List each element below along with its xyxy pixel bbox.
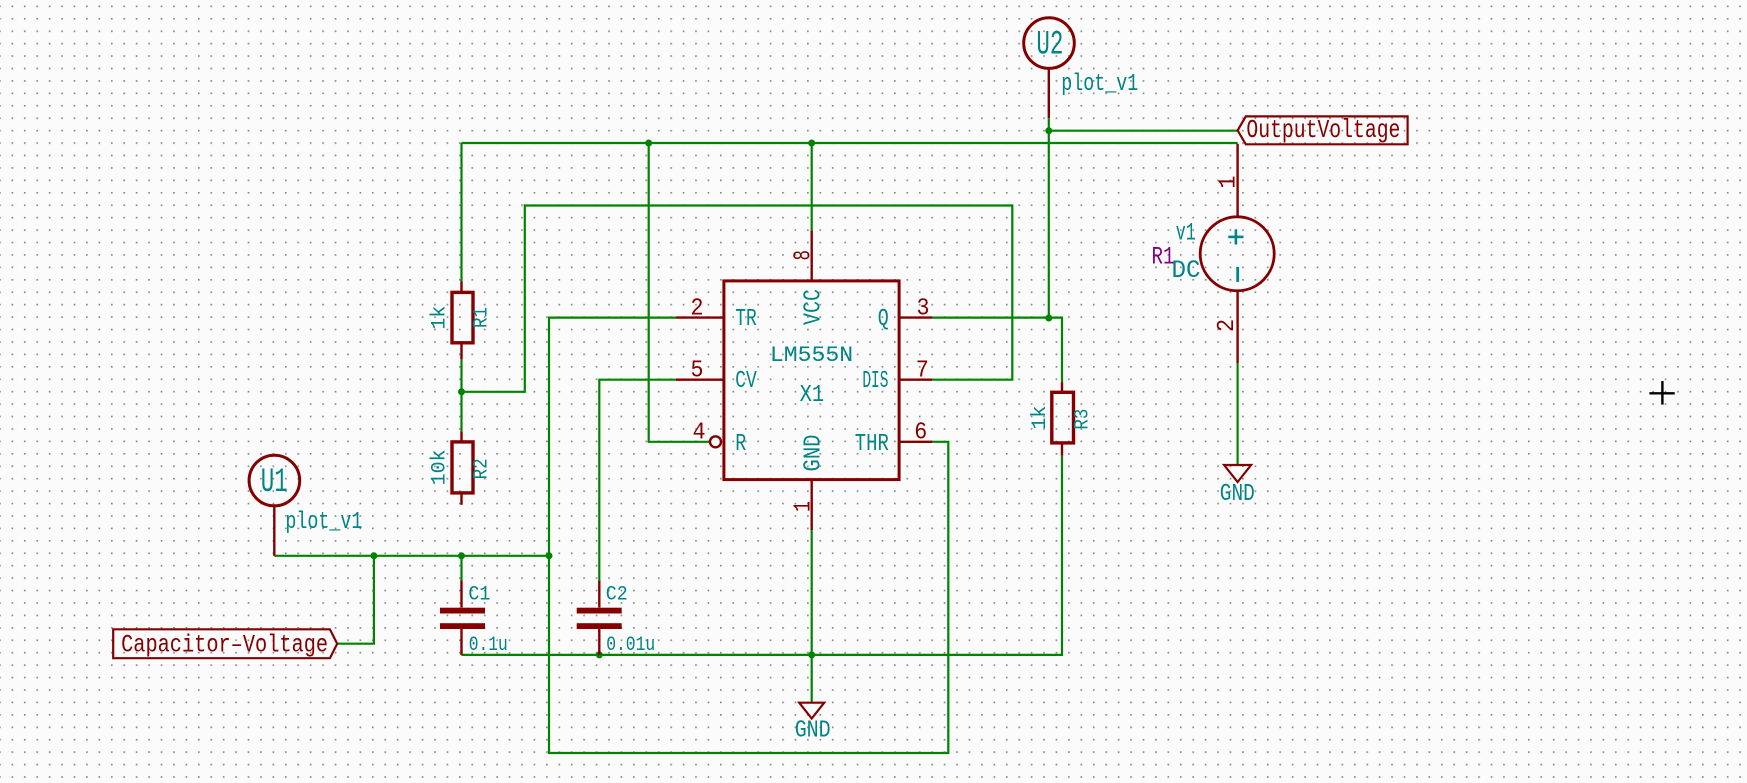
node junction C1 top [458, 552, 465, 559]
minus mark of v1 [1236, 267, 1239, 282]
ground symbol (under v1) [1220, 465, 1255, 508]
pin 7 DIS stub [899, 379, 932, 381]
svg-text:VCC: VCC [801, 289, 828, 325]
resistor R3 [1052, 382, 1074, 456]
capacitor C1 [440, 581, 485, 655]
svg-text:plot_v1: plot_v1 [1061, 71, 1138, 98]
svg-text:1: 1 [791, 501, 818, 512]
node junction IC GND ground rail [808, 651, 815, 658]
svg-text:C2: C2 [606, 584, 628, 607]
wire VCC top rail horizontal [462, 142, 1238, 144]
svg-text:X1: X1 [800, 382, 825, 409]
svg-text:Capacitor–Voltage: Capacitor–Voltage [121, 630, 328, 659]
node junction C2 bottom ground [596, 651, 603, 658]
wire reset pin 4 [649, 143, 710, 442]
svg-text:10k: 10k [429, 449, 452, 485]
resistor R2 [452, 431, 473, 505]
plus mark of v1 [1228, 229, 1243, 244]
op-amp U1 / timer IC X1 LM555N body [676, 230, 932, 530]
svg-text:U2: U2 [1036, 27, 1063, 65]
wire VCC pin 8 vertical [811, 143, 813, 230]
pin 4 R inverted bubble [710, 436, 721, 447]
svg-text:5: 5 [691, 357, 704, 384]
svg-text:2: 2 [691, 295, 704, 322]
svg-text:7: 7 [916, 357, 929, 384]
wire VCC rail to R1 vertical [460, 143, 462, 282]
svg-text:0.1u: 0.1u [469, 634, 508, 657]
wire Q output to R3 [932, 318, 1062, 383]
wire DIS loop [462, 206, 1013, 392]
voltage source v1 [1200, 144, 1274, 363]
wire v1 to ground [1236, 363, 1238, 465]
svg-text:R2: R2 [471, 458, 494, 479]
node junction capacitor label [370, 552, 377, 559]
svg-text:GND: GND [795, 718, 831, 745]
svg-text:TR: TR [735, 306, 757, 333]
pin 2 TR stub [676, 316, 724, 318]
svg-text:C1: C1 [468, 584, 490, 607]
pin 6 THR stub [899, 441, 932, 443]
svg-text:0.01u: 0.01u [606, 634, 655, 657]
node junction TR wire [546, 552, 553, 559]
svg-text:2: 2 [1214, 319, 1241, 332]
wire capacitor node horizontal [274, 555, 549, 557]
wire R1 to R2 [460, 359, 462, 431]
pin 1 GND stub [811, 480, 813, 530]
svg-text:Q: Q [878, 306, 889, 333]
svg-text:1: 1 [1216, 176, 1243, 189]
probe U1 [249, 455, 300, 556]
svg-text:R: R [735, 431, 746, 458]
svg-text:GND: GND [801, 435, 828, 472]
cursor crosshair [1649, 381, 1674, 405]
svg-text:CV: CV [735, 368, 757, 395]
node junction Q output [1045, 315, 1052, 322]
net label Capacitor-Voltage [113, 629, 337, 659]
probe U2 [1024, 18, 1075, 118]
wire U2 probe vertical [1048, 118, 1050, 318]
wire IC GND to ground [811, 530, 813, 703]
capacitor C2 [577, 580, 622, 655]
ground symbol (under IC) [795, 703, 831, 745]
wire TR to THR loop [549, 318, 948, 753]
wire ground rail horizontal [462, 456, 1063, 655]
wire to Capacitor-Voltage label [337, 556, 374, 644]
svg-text:6: 6 [914, 420, 927, 447]
svg-text:DC: DC [1172, 256, 1201, 285]
pin 8 VCC stub [811, 230, 813, 281]
pin 5 CV stub [676, 379, 724, 381]
node junction VCC rail / pin4 wire [645, 140, 652, 147]
svg-text:DIS: DIS [862, 368, 888, 395]
net label OutputVoltage [1238, 115, 1408, 145]
svg-text:1k: 1k [1029, 406, 1052, 430]
node junction OutputVoltage / U2 [1045, 127, 1052, 134]
svg-text:LM555N: LM555N [770, 343, 853, 368]
svg-text:3: 3 [917, 295, 930, 322]
svg-text:v1: v1 [1176, 219, 1196, 248]
svg-text:OutputVoltage: OutputVoltage [1246, 115, 1400, 145]
svg-text:R1: R1 [471, 307, 494, 328]
wire R2 to C1 [460, 556, 462, 581]
svg-text:4: 4 [693, 420, 706, 447]
wire OutputVoltage label horizontal [1049, 130, 1238, 132]
svg-text:GND: GND [1220, 481, 1255, 508]
svg-text:1k: 1k [429, 306, 452, 330]
resistor R1 [452, 282, 473, 360]
wire CV pin 5 to C2 [599, 380, 676, 581]
svg-text:THR: THR [855, 431, 889, 458]
node junction R1-R2 divider [458, 388, 465, 395]
pin 3 Q stub [899, 316, 932, 318]
svg-text:plot_v1: plot_v1 [285, 509, 362, 536]
node junction VCC rail / pin8 [808, 140, 815, 147]
svg-text:U1: U1 [261, 464, 288, 502]
svg-text:8: 8 [791, 250, 818, 261]
svg-text:R3: R3 [1072, 409, 1095, 430]
